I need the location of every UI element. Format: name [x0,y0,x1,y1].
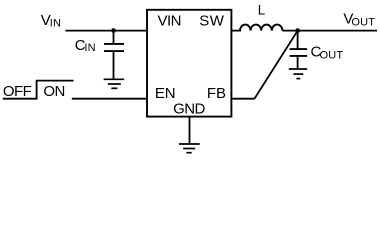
svg-text:VIN: VIN [158,13,181,30]
ground symbol (U1 GND) [179,144,200,153]
wire EN net [72,98,147,100]
capacitor CIN [104,31,124,80]
net VOUT label [343,10,375,28]
svg-text:OUT: OUT [351,17,375,29]
wire FB pin horizontal [231,98,254,100]
svg-text:OUT: OUT [320,49,344,61]
capacitor COUT label [311,44,344,62]
svg-text:IN: IN [50,17,61,29]
junction VIN/CIN node [111,28,116,33]
ground symbol (CIN) [104,79,125,88]
inductor L [240,25,282,31]
capacitor CIN label [75,37,96,54]
wire VOUT net (output rail) [282,30,377,32]
net VIN label [41,12,61,29]
svg-text:EN: EN [155,85,176,102]
capacitor COUT [290,31,308,69]
svg-text:FB: FB [207,85,226,102]
svg-text:OFF: OFF [3,83,32,100]
ground symbol (COUT) [289,69,307,79]
enable step waveform [3,81,74,99]
svg-text:ON: ON [43,83,64,100]
svg-text:IN: IN [84,42,95,54]
svg-text:L: L [258,3,266,18]
svg-text:GND: GND [173,101,205,118]
junction VOUT/COUT/FB node [295,28,300,33]
wire VIN net (input rail) [66,30,148,32]
IC U1 body [147,10,231,117]
svg-text:SW: SW [199,13,225,30]
wire SW pin to inductor [231,30,241,32]
wire GND pin [189,117,191,144]
wire FB feedback diagonal [255,31,298,99]
